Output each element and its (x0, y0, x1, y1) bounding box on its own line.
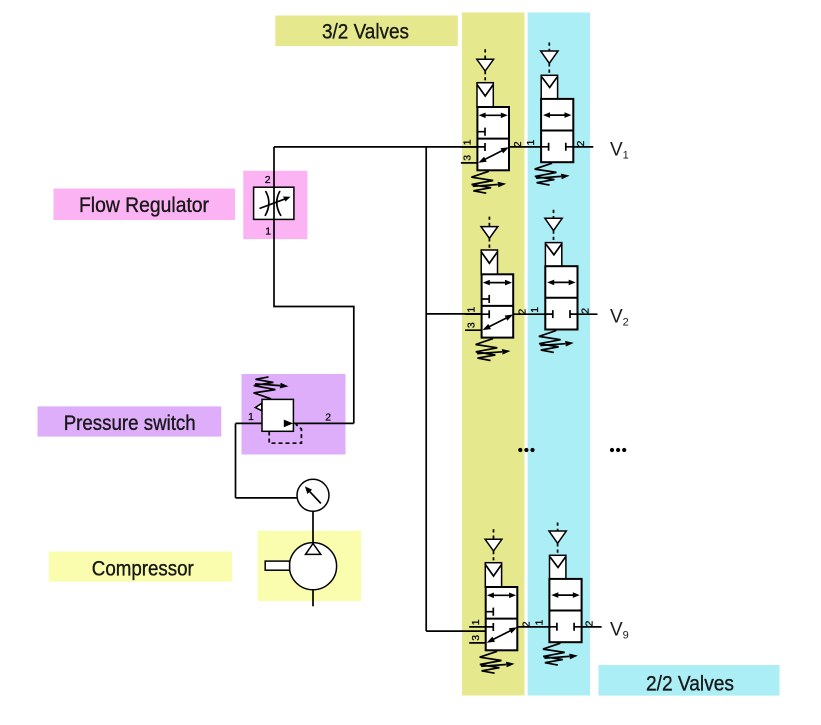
svg-text:2: 2 (623, 317, 629, 329)
V2a flow path 3-2 arrow (rest position) (487, 317, 508, 328)
svg-text:V: V (610, 619, 623, 640)
wire: flow regulator port 2 up (273, 147, 275, 187)
V9a pilot signal dashed line (493, 529, 495, 539)
V9b blocked port 1 (rest position) (549, 623, 557, 631)
V9a spring (480, 651, 515, 673)
V9a blocked port (actuated position) (486, 608, 494, 616)
V1b blocked port 1 (rest position) (541, 143, 549, 151)
svg-text:Pressure switch: Pressure switch (64, 411, 196, 435)
svg-text:3: 3 (470, 635, 482, 641)
wire: compressor inlet stub (312, 590, 314, 607)
compressor P1 (265, 543, 336, 590)
V9b flow path arrow (actuated position) (556, 594, 575, 596)
2/2 valve V2b (529, 210, 591, 353)
svg-text:V: V (610, 139, 623, 160)
pressure switch pilot dashed loop (269, 424, 301, 443)
V2a spring (476, 339, 511, 361)
svg-text:2: 2 (512, 141, 524, 147)
wire: branch to valve V2 (426, 313, 482, 315)
wire: flow regulator port 1 down to pressure switch port 2 (274, 219, 354, 423)
wire: V1 output stub (573, 146, 593, 148)
flow regulator background highlight (243, 171, 307, 239)
2/2 valve V1b (525, 43, 587, 186)
V9a port 3 stub (469, 642, 486, 644)
V2a port 1 stub (465, 313, 482, 315)
wire: to manometer (236, 497, 298, 499)
V1a spring (471, 171, 506, 193)
V1a blocked port 1 (rest position) (477, 143, 485, 151)
V1 net label (610, 139, 629, 161)
2/2 valve V9b (533, 523, 595, 666)
wire: V1 3/2 to 2/2 (509, 146, 541, 148)
svg-text:2: 2 (579, 308, 591, 314)
V1b pilot box (541, 75, 557, 99)
V9b pilot box (550, 555, 566, 579)
svg-text:2: 2 (516, 309, 528, 315)
svg-text:2: 2 (325, 411, 331, 423)
V2a flow path arrow (actuated position) (488, 282, 508, 284)
pressure switch seat triangle (255, 403, 261, 410)
svg-text:2: 2 (265, 174, 271, 186)
svg-text:1: 1 (470, 619, 482, 625)
3/2 valves column highlight band (462, 13, 525, 696)
svg-text:Flow Regulator: Flow Regulator (79, 193, 209, 217)
V1a port 3 stub (461, 162, 478, 164)
svg-text:3: 3 (462, 155, 474, 161)
svg-text:1: 1 (466, 307, 478, 313)
svg-text:1: 1 (529, 307, 541, 313)
V2b pilot box (545, 243, 561, 267)
wire: pressure switch port 1 down (235, 423, 237, 498)
wire: pressure switch through-line (236, 422, 354, 424)
svg-text:1: 1 (525, 140, 537, 146)
V2a pilot box (481, 250, 497, 274)
V1b flow path arrow (actuated position) (548, 114, 567, 116)
pressure switch flow arrow (284, 420, 293, 428)
V9b pilot triangle (549, 531, 566, 543)
V9 net label (610, 619, 629, 641)
Compressor label (49, 552, 232, 582)
3/2 Valves title box (275, 16, 458, 47)
V2b valve body (545, 266, 577, 329)
svg-text:2/2 Valves: 2/2 Valves (646, 672, 734, 696)
wire: V9 output stub (582, 626, 602, 628)
3/2 valve V9a (469, 529, 532, 673)
3/2 valve V2a (465, 217, 528, 361)
3/2 valve V1a (461, 49, 524, 193)
V9a flow path 3-2 arrow (rest position) (491, 630, 512, 641)
svg-text:9: 9 (623, 630, 629, 642)
V2b pilot triangle (545, 218, 562, 230)
svg-text:1: 1 (265, 226, 271, 238)
V1b pilot triangle (541, 51, 558, 63)
pressure switch adjustable spring (254, 377, 289, 399)
V9b blocked port 2 (rest position) (574, 623, 582, 631)
svg-text:3: 3 (466, 322, 478, 328)
pressure switch PS1 (248, 377, 331, 443)
wire: V2 3/2 to 2/2 (513, 313, 545, 315)
V2b spring (539, 331, 574, 353)
V9b pilot signal dashed line (557, 523, 559, 532)
V2b blocked port 1 (rest position) (545, 310, 553, 318)
2/2 Valves title box (599, 665, 780, 696)
wire: V2 output stub (578, 313, 598, 315)
V1a pilot triangle (477, 59, 494, 71)
V9a port 1 stub (469, 626, 486, 628)
V2b flow path arrow (actuated position) (552, 281, 571, 283)
svg-text:Compressor: Compressor (92, 557, 194, 581)
wire: V9 3/2 to 2/2 (517, 626, 549, 628)
flow regulator FR1 (254, 174, 294, 238)
ellipsis dots left column (518, 448, 534, 452)
V1a blocked port (actuated position) (477, 128, 485, 136)
pressure switch background highlight (242, 374, 346, 455)
wire: branch to valve V9 (426, 630, 486, 632)
wire: vertical distribution line (425, 147, 427, 631)
V2b pilot signal dashed line (553, 210, 555, 219)
V1a pilot box (477, 83, 493, 107)
V9a valve body (486, 587, 518, 650)
wire: manometer to compressor (312, 511, 314, 543)
svg-text:1: 1 (623, 150, 629, 162)
svg-text:1: 1 (533, 620, 545, 626)
V1a flow path 3-2 arrow (rest position) (483, 150, 504, 161)
V1b valve body (541, 99, 573, 162)
svg-text:1: 1 (462, 139, 474, 145)
V1a pilot signal dashed line (484, 49, 486, 59)
V2a pilot signal dashed line (488, 217, 490, 227)
V1a flow path arrow (actuated position) (483, 114, 503, 116)
svg-text:2: 2 (575, 141, 587, 147)
ellipsis dots right column (610, 448, 626, 452)
svg-text:1: 1 (248, 411, 254, 423)
V9a pilot triangle (485, 539, 502, 551)
V9a pilot box (485, 563, 501, 587)
V2a blocked port (actuated position) (482, 295, 490, 303)
V1b pilot signal dashed line (548, 43, 550, 52)
V2a valve body (482, 274, 514, 337)
svg-text:2: 2 (584, 621, 596, 627)
V1a port 1 stub (461, 146, 478, 148)
V2b blocked port 2 (rest position) (570, 310, 578, 318)
V9b valve body (549, 579, 581, 642)
V2 net label (610, 306, 629, 328)
wire: supply rail to valves row 1 (274, 146, 478, 148)
svg-text:3/2 Valves: 3/2 Valves (322, 20, 409, 44)
V9b spring (543, 643, 578, 665)
2/2 valves column highlight band (528, 13, 590, 696)
V2a pilot triangle (481, 227, 498, 239)
Flow Regulator label (54, 189, 236, 221)
svg-text:2: 2 (521, 621, 533, 627)
V2a port 3 stub (465, 329, 482, 331)
V2a blocked port 1 (rest position) (482, 310, 490, 318)
compressor background highlight (258, 531, 362, 601)
V9a flow path arrow (actuated position) (492, 594, 512, 596)
V1b spring (535, 163, 570, 185)
Pressure switch label (38, 406, 222, 436)
V1b blocked port 2 (rest position) (566, 143, 574, 151)
V9a blocked port 1 (rest position) (486, 623, 494, 631)
manometer (pressure gauge) (297, 479, 329, 511)
V1a valve body (477, 107, 509, 170)
svg-text:V: V (610, 306, 623, 327)
